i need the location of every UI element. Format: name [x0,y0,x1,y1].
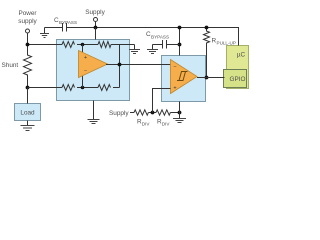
wire: load ground stub [27,121,29,126]
wire: op-amp minus input stub [82,71,84,88]
supply terminal [94,18,98,22]
resistor R pull-up [204,26,210,80]
capacitor C2 bypass plates [163,40,167,49]
svg-text:BYPASS: BYPASS [151,34,169,39]
svg-text:Load: Load [20,110,35,117]
wire: feedback vertical [119,45,121,88]
wire: divider tap to comparator plus input [153,89,171,113]
resistor R3 (U1 bottom input) [62,85,75,91]
svg-text:µC: µC [237,52,246,59]
svg-text:+: + [84,55,87,61]
svg-text:DIV: DIV [162,121,171,126]
wire: U1 supply pin [95,28,97,40]
wire: supply rail [67,28,239,46]
output node dot [118,63,122,67]
capacitor C1 bypass plates [63,23,67,32]
junction dot C2 [178,43,182,47]
wire: top row to right ground [111,44,135,46]
resistor R div 1 [134,110,148,115]
junction dot divider tap [151,111,155,115]
comparator box U2 [162,56,206,102]
op-amp U1 triangle [79,51,108,78]
wire: power supply terminal drop [27,33,29,45]
current-sense amplifier box U1 [57,40,130,101]
GPIO box [224,70,247,88]
ground C1 [40,28,49,38]
junction dot divider bottom [178,111,182,115]
microcontroller box U3 [227,46,249,89]
svg-text:−: − [84,69,87,75]
resistor R1 (U1 top input) [62,42,75,48]
resistor R div 2 [156,110,170,115]
wire: C2 left lead [153,44,163,46]
junction dot shunt bottom [26,86,30,90]
ground load [21,126,35,131]
comparator hysteresis symbol [177,72,188,81]
wire: comparator supply drop [179,28,181,56]
wire: divider supply lead [130,112,134,114]
svg-text:−: − [173,64,176,70]
resistor R4 (U1 bottom feedback) [98,85,111,91]
node A dot [81,43,85,47]
junction dot supply rail at comparator [178,26,182,30]
wire: bottom sense line into U1 [28,87,63,89]
wire: comparator output to GPIO [197,77,225,79]
svg-text:supply: supply [18,18,37,25]
wire: U1 output to comparator [106,64,171,66]
comparator U2 triangle [171,60,198,94]
svg-text:GPIO: GPIO [230,76,246,83]
svg-text:Shunt: Shunt [2,62,19,69]
wire: divider mid left [148,112,156,114]
wire: U1 ground pin [93,101,95,120]
svg-text:Power: Power [18,10,37,17]
wire: supply terminal drop [95,22,97,28]
ground divider [173,119,186,123]
resistor R2 (U1 top gain) [98,42,111,48]
svg-text:BYPASS: BYPASS [59,20,77,25]
svg-text:DIV: DIV [142,121,151,126]
wire: comparator ground pin [179,102,181,119]
load box [15,104,41,121]
wire: op-amp plus input stub [82,45,84,58]
wire: divider to ground node [170,112,179,114]
svg-text:Supply: Supply [109,110,129,117]
power supply terminal [26,29,30,33]
node B dot [81,86,85,90]
svg-text:+: + [173,86,176,92]
wire: bottom row to feedback corner [113,87,120,89]
wire: node B segment [77,87,98,89]
svg-text:PULL-UP: PULL-UP [217,41,236,46]
wire: load drop [27,88,29,104]
wire: top sense line into U1 [28,44,63,46]
wire: supply rail left of C1 [45,27,63,29]
wire: C2 right lead [167,44,180,46]
svg-text:Supply: Supply [85,9,105,16]
ground U1 [88,120,100,124]
wire: node A segment [77,44,98,46]
shunt resistor [24,45,32,88]
ground U1 top-right [129,45,140,54]
junction dot supply terminal [94,26,98,30]
junction dot power supply node [26,43,30,47]
ground C2 [147,45,158,54]
